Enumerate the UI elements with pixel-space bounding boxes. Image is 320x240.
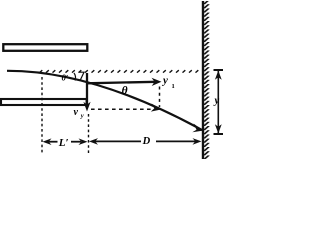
extension line L' left dashed vertical (through plate centre) [41, 77, 43, 155]
svg-text:θ′: θ′ [62, 73, 69, 83]
svg-text:y: y [213, 96, 220, 107]
vector v_y (vertical arrow at plate end) [83, 73, 90, 112]
svg-text:y: y [161, 75, 168, 87]
svg-text:v: v [74, 107, 79, 118]
bottom plate [1, 99, 87, 105]
svg-text:y: y [80, 113, 84, 120]
angle cluster near plate centre (theta-prime and arc) [62, 72, 85, 82]
dimension D [89, 138, 202, 145]
svg-text:L′: L′ [58, 137, 69, 149]
svg-text:D: D [142, 136, 151, 147]
extension dashed vertical at plate end [88, 114, 90, 155]
dashed horizontal from v_y tip to velocity arrowhead [91, 108, 156, 110]
top plate [3, 44, 87, 51]
arrowhead at screen hit point [192, 124, 203, 133]
screen S (hatched wall at right) [203, 1, 210, 159]
velocity arrowhead v on trajectory [151, 104, 161, 112]
dimension y (right of screen) [214, 70, 224, 134]
svg-text:θ: θ [122, 85, 128, 97]
trajectory curve [7, 71, 202, 130]
dimension L' [43, 138, 88, 145]
vector vx (horizontal arrow from exit point) [86, 78, 162, 86]
svg-text:1: 1 [172, 83, 175, 90]
dashed vertical from vx tip down to trajectory [159, 87, 161, 108]
node axis (undeflected path, slanted dash ticks) [40, 70, 199, 72]
